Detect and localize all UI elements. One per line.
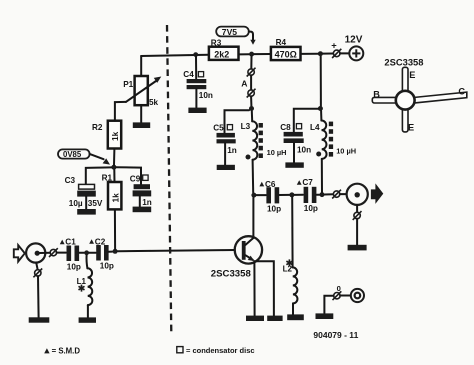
wire emitter 1 down [253, 261, 255, 315]
break point input [49, 248, 58, 257]
svg-text:+: + [331, 40, 337, 51]
wire node to break [325, 193, 334, 195]
svg-text:10µ: 10µ [69, 199, 83, 208]
svg-text:B: B [373, 90, 380, 100]
svg-text:R4: R4 [276, 38, 287, 47]
wire output shield down [356, 205, 358, 212]
inductor L3 [241, 121, 287, 159]
dashed separator line [167, 25, 171, 333]
svg-text:470Ω: 470Ω [275, 50, 297, 60]
legend SMD [44, 346, 80, 355]
node C6/C7 L2 [289, 192, 294, 197]
svg-text:C4: C4 [183, 70, 194, 79]
wire L2 to ground [292, 303, 294, 314]
capacitor C2 [89, 237, 114, 270]
wire zero break to ground [324, 296, 333, 314]
wire node to C7 [294, 194, 303, 196]
wire node to C6 [256, 194, 266, 196]
svg-text:10 µH: 10 µH [336, 146, 356, 155]
svg-text:L4: L4 [310, 123, 320, 132]
resistor R4 [271, 38, 301, 60]
wire P1 to ground [140, 105, 142, 122]
svg-text:12V: 12V [345, 34, 363, 45]
ground zero [316, 313, 334, 319]
wire R4 to node [301, 53, 318, 55]
capacitor C5 [213, 124, 237, 165]
wire L4 to output node [321, 159, 323, 192]
svg-text:904079 - 11: 904079 - 11 [313, 330, 358, 340]
wire node down to L3 [251, 111, 253, 121]
svg-text:1n: 1n [227, 146, 237, 155]
wire L4 top down from rail [320, 56, 322, 106]
svg-text:2SC3358: 2SC3358 [384, 57, 423, 68]
node R4/12V [318, 51, 323, 56]
pinout label 2SC3358 [384, 57, 423, 68]
wire break to C1 [57, 252, 66, 254]
svg-text:1k: 1k [110, 131, 120, 141]
wire C4 down [195, 57, 197, 79]
break point A2 [247, 89, 256, 98]
inductor L4 [310, 120, 356, 158]
break point input shield [33, 269, 42, 278]
wire C2 to node R1 [109, 251, 113, 253]
svg-text:L2: L2 [283, 265, 293, 274]
capacitor C3 [65, 176, 103, 209]
capacitor C7 [297, 178, 318, 213]
node bias 0V85 [111, 165, 116, 170]
svg-text:C9: C9 [130, 175, 141, 184]
inductor L1 [77, 268, 93, 305]
break point output shield [353, 211, 362, 220]
svg-text:7V5: 7V5 [222, 27, 238, 37]
node L4/C8 [318, 106, 323, 111]
break point A1 [247, 68, 256, 77]
svg-text:2SC3358: 2SC3358 [211, 269, 252, 280]
svg-text:C8: C8 [280, 123, 291, 132]
svg-text:10p: 10p [67, 263, 81, 272]
svg-text:10p: 10p [100, 261, 114, 270]
wire input dot to break [40, 252, 50, 254]
capacitor C9 [130, 175, 152, 208]
svg-text:10p: 10p [304, 204, 318, 213]
svg-text:R1: R1 [102, 174, 113, 183]
ground C3 [77, 209, 96, 215]
capacitor C1 [60, 238, 81, 272]
wire break to 12V [340, 52, 349, 54]
label A [241, 79, 247, 89]
svg-text:C2: C2 [95, 237, 106, 246]
legend condensator disc [177, 346, 255, 355]
transistor T1 2SC3358 [211, 236, 262, 279]
svg-text:= condensator disc: = condensator disc [186, 346, 255, 355]
svg-text:10 µH: 10 µH [267, 148, 287, 157]
wire C6 to node [279, 194, 289, 196]
wire R2 top to P1 wiper [115, 102, 126, 121]
wire collector down [252, 198, 254, 238]
ground emitter 2 [267, 316, 282, 321]
svg-text:C3: C3 [65, 176, 76, 185]
ground P1 [133, 122, 150, 128]
pinout package T1 [372, 67, 467, 132]
svg-text:C5: C5 [213, 124, 224, 133]
wire shield to ground [37, 276, 40, 317]
wire break to output connector [340, 193, 347, 195]
wire node A down [250, 57, 252, 69]
wire node down to L1 [86, 255, 89, 268]
svg-text:P1: P1 [123, 80, 133, 89]
input connector J1 [14, 243, 46, 262]
output connector J2 [347, 183, 384, 205]
svg-text:10p: 10p [267, 204, 281, 213]
ground L2 [287, 314, 304, 320]
wire A2 to node L3 [250, 96, 252, 106]
potentiometer P1 [123, 76, 161, 107]
node C1/C2 [84, 250, 89, 255]
ground output [348, 245, 367, 251]
supply terminal 12V [345, 34, 364, 60]
svg-text:10n: 10n [199, 91, 213, 100]
wire node to C2 [89, 252, 96, 254]
svg-text:L1: L1 [77, 277, 87, 286]
svg-text:R3: R3 [211, 38, 222, 47]
label 904079-11 [313, 330, 358, 340]
wire emitter 2 right and down [254, 261, 274, 315]
svg-text:L3: L3 [241, 122, 251, 131]
resistor R1 [102, 174, 122, 210]
svg-text:0V85: 0V85 [63, 150, 82, 159]
svg-text:R2: R2 [92, 123, 103, 132]
svg-text:35V: 35V [88, 199, 103, 208]
svg-text:= S.M.D: = S.M.D [52, 346, 81, 355]
svg-text:C7: C7 [302, 178, 313, 187]
resistor R3 [209, 38, 239, 60]
svg-text:E: E [408, 123, 414, 133]
ground C9 [133, 207, 152, 213]
node C7/L4 [320, 192, 325, 197]
wire P1 top to rail [140, 56, 142, 76]
wire R2 bottom to bias node [113, 149, 115, 165]
svg-text:1n: 1n [142, 198, 152, 207]
ground emitter 1 [246, 316, 264, 321]
ground C5 [217, 165, 235, 170]
svg-text:5k: 5k [149, 98, 159, 107]
wire top rail P1 to R3 [141, 55, 209, 56]
supply break point [331, 40, 341, 58]
capacitor C8 [280, 123, 311, 162]
svg-text:A: A [241, 79, 247, 89]
wire node to C8 [294, 109, 318, 132]
svg-text:1k: 1k [110, 193, 120, 203]
ground L1 [79, 317, 96, 322]
ground input [29, 317, 50, 322]
wire R1 top to bias node [113, 170, 115, 183]
node L3/C5 [249, 106, 254, 111]
wire L1 to ground [87, 305, 89, 317]
wire node down to L4 [320, 111, 322, 121]
node C4 tap [193, 52, 198, 57]
break point output [332, 190, 341, 199]
capacitor C4 [183, 70, 213, 107]
wire shield to ground [356, 219, 358, 245]
svg-text:2k2: 2k2 [214, 50, 229, 60]
label 7V5 [216, 27, 256, 45]
wire C1 to node [79, 252, 84, 254]
wire node to C5 [225, 110, 250, 132]
wire bias node to C3 [86, 167, 112, 184]
node base/R1 [113, 249, 118, 254]
inductor L2 [283, 259, 298, 303]
wire node to R4 [254, 53, 271, 55]
wire input shield down [36, 263, 37, 269]
wire R3 to node [239, 53, 249, 55]
svg-text:C6: C6 [265, 180, 276, 189]
svg-text:C: C [458, 87, 465, 97]
wire L3 to collector rail [252, 160, 255, 193]
label 0V85 [58, 149, 110, 164]
wire break to zero connector [340, 295, 350, 297]
wire node to supply break [323, 53, 333, 55]
wire R1 to base node [114, 210, 116, 249]
node C6 left [251, 193, 256, 198]
capacitor C6 [259, 180, 281, 213]
node R3/R4 [249, 52, 254, 57]
ground C4 [188, 108, 206, 113]
ground C8 [285, 162, 303, 167]
svg-text:C1: C1 [65, 238, 76, 247]
wire A1 to A2 [250, 75, 252, 90]
wire C7 to node [317, 194, 320, 196]
wire bias node to C9 [116, 167, 141, 184]
svg-text:10n: 10n [297, 146, 311, 155]
svg-text:E: E [409, 70, 415, 80]
zero reference connector [333, 284, 365, 302]
resistor R2 [92, 121, 121, 149]
wire base node to transistor [118, 250, 235, 251]
wire L2 down [291, 197, 293, 267]
